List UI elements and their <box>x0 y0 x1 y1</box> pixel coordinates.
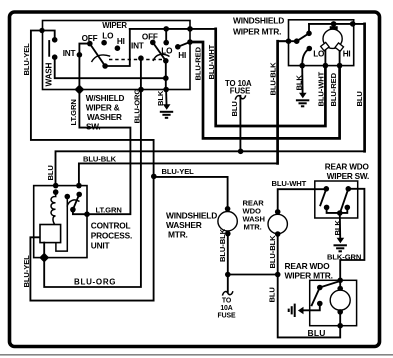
node gang2 rail from WASH <box>163 75 169 81</box>
node BLU-ORG at box bottom <box>138 87 144 93</box>
svg-text:BLK-GRN: BLK-GRN <box>327 253 361 262</box>
wire BLU-WHT thick from switch to wiper motor LO <box>216 29 326 126</box>
svg-text:INT: INT <box>63 49 76 58</box>
svg-text:FUSE: FUSE <box>218 312 236 319</box>
wire relay fixed contact to relay box bottom <box>56 197 67 252</box>
svg-text:BLU: BLU <box>230 101 239 117</box>
fuse hook symbol (upper) <box>235 95 246 99</box>
node BLK at box bottom <box>163 87 169 93</box>
svg-text:HI: HI <box>178 51 186 60</box>
svg-text:HI: HI <box>117 37 125 46</box>
node INT1 contact <box>77 52 83 58</box>
svg-text:BLU: BLU <box>308 328 326 338</box>
switch blade to upper contact <box>297 33 309 41</box>
node rail tap to LO2 <box>163 26 169 32</box>
wire lower contacts common <box>327 207 348 213</box>
motor circle (rear washer) <box>268 214 287 233</box>
svg-text:BLU-RED: BLU-RED <box>329 72 338 106</box>
wire BLU-YEL main run (switch feed, down left side, across, down riser, bottom run to relay) <box>30 31 153 301</box>
wire WASH bottom to gang2 pivot rail <box>55 57 166 78</box>
svg-text:BLU-YEL: BLU-YEL <box>162 167 195 176</box>
svg-text:LO: LO <box>313 50 325 59</box>
node motor park contact lower <box>307 46 313 52</box>
svg-text:BLU-BLK: BLU-BLK <box>268 235 277 269</box>
svg-text:BLK: BLK <box>295 75 304 91</box>
node relay fixed contact <box>65 194 71 200</box>
motor switch common wire <box>278 40 297 42</box>
node rear motor at box bottom <box>337 323 343 329</box>
windshield wiper motor box <box>289 20 354 66</box>
svg-text:FUSE: FUSE <box>230 86 250 95</box>
control process unit box <box>34 186 87 258</box>
blade rear motor park switch <box>312 288 320 306</box>
wire to fuse hook (lower) <box>227 275 229 293</box>
node rear switch lower-right contact <box>345 205 351 211</box>
node motor top terminal <box>331 21 337 27</box>
svg-text:LO: LO <box>102 31 114 40</box>
wire box top to circle top <box>339 280 341 290</box>
node rear motor park lower contact <box>317 301 323 307</box>
node motor switch common <box>294 38 300 44</box>
motor brush lug HI <box>335 43 343 51</box>
svg-text:WIPER: WIPER <box>102 21 127 30</box>
svg-text:LT.GRN: LT.GRN <box>69 99 78 125</box>
wire BLU-BLK thick vertical from motor switch <box>276 41 279 163</box>
wire BLU from fuse down to BLU line <box>239 96 241 152</box>
node LO2 upper contact <box>163 40 169 46</box>
svg-text:CONTROL: CONTROL <box>91 221 131 231</box>
wire rear motor park feed diagonal <box>320 281 340 288</box>
node BLU-YEL at switch box left edge <box>39 28 44 33</box>
svg-text:WIPER &: WIPER & <box>86 104 120 113</box>
wire relay bottom to BLU-ORG diamond <box>43 243 45 258</box>
arc gang1 wiper travel <box>92 55 111 62</box>
svg-text:MTR.: MTR. <box>168 229 188 239</box>
node BLU-RED tap at box right edge <box>187 39 193 45</box>
svg-text:HI: HI <box>343 50 351 59</box>
svg-text:BLK: BLK <box>333 220 342 236</box>
rear wiper switch box <box>315 181 358 218</box>
blade rear switch left (open) <box>320 189 326 206</box>
motor brush lug LO <box>321 42 329 50</box>
motor circle (windshield washer) <box>218 212 237 231</box>
blade relay switch <box>73 194 79 209</box>
blade rear switch right (closed) <box>340 189 348 213</box>
node LO1 contact <box>101 40 107 46</box>
motor circle (windshield wiper) <box>323 29 342 48</box>
ground symbol (rear wiper motor, pointing left) <box>289 304 304 317</box>
svg-text:WIPER MTR.: WIPER MTR. <box>233 26 281 36</box>
svg-text:BLU: BLU <box>268 287 277 303</box>
node BLU at control box top <box>53 183 59 189</box>
wire relay pivot to LT.GRN <box>73 210 87 215</box>
switch blade WASH (open) <box>48 41 50 56</box>
motor circle (rear wiper) <box>330 290 350 310</box>
wire BLU net: motor feed line across to control unit <box>363 24 366 151</box>
node fuse bus left <box>225 272 231 278</box>
node rear motor at box top <box>337 278 343 284</box>
svg-text:REAR WDO: REAR WDO <box>325 162 370 171</box>
wire BLU riser to rear wiper motor <box>278 275 341 338</box>
relay box <box>40 225 61 243</box>
node BLU-BLK at control box top <box>76 183 82 189</box>
node relay switch top contact <box>76 192 82 198</box>
node WASH bottom contact <box>52 54 58 60</box>
wire BLU-YEL branch to windshield washer motor <box>154 177 228 208</box>
svg-text:MTR.: MTR. <box>244 222 262 231</box>
relay coil <box>51 192 56 224</box>
svg-text:BLU-WHT: BLU-WHT <box>272 179 307 188</box>
svg-text:LO: LO <box>161 46 173 55</box>
wire motor top feed line <box>309 23 365 25</box>
svg-text:BLU: BLU <box>46 165 55 181</box>
ground symbol (rear switch) <box>334 238 347 252</box>
node motor park contact upper <box>306 31 312 37</box>
svg-text:BLU-BLK: BLU-BLK <box>83 155 117 164</box>
node rail at box right edge <box>187 26 193 32</box>
node BLU-ORG at control box bottom (diamond) <box>39 253 49 263</box>
svg-text:W/SHIELD: W/SHIELD <box>86 94 125 103</box>
wire fuse bus <box>228 274 278 276</box>
node LT.GRN at control box edge <box>84 211 90 217</box>
svg-text:BLK: BLK <box>156 90 165 106</box>
node washer motor top <box>225 206 231 212</box>
svg-text:UNIT: UNIT <box>91 241 110 251</box>
wire OFF1 to INT1 to box bottom, LT.GRN run to control unit <box>79 44 130 215</box>
wire LO lug down <box>324 51 326 66</box>
switch blade gang2 <box>153 42 166 60</box>
node rear motor park upper contact <box>317 285 323 291</box>
node OFF2 contact <box>150 40 156 46</box>
svg-text:BLU-BLK: BLU-BLK <box>268 62 277 96</box>
wire rear wash motor bottom to fuse bus <box>277 234 279 275</box>
node rear wash motor top <box>275 209 281 215</box>
svg-text:BLU-BLK: BLU-BLK <box>218 228 227 262</box>
wire BLU-ORG from INT2 down and across to control unit <box>44 58 141 287</box>
node pivot gang1 <box>102 63 108 69</box>
node HI2 contact <box>175 44 181 50</box>
wire BLK-GRN rear switch to rear wiper motor <box>340 189 364 280</box>
svg-text:OFF: OFF <box>82 34 98 43</box>
wire HI lug down <box>339 51 341 66</box>
arc gang2 wiper travel <box>153 54 170 61</box>
svg-text:BLU-ORG: BLU-ORG <box>132 89 141 124</box>
svg-text:WINDSHIELD: WINDSHIELD <box>233 15 284 25</box>
wire BLU-WHT rear wash motor to rear switch <box>278 189 327 212</box>
wire BLU-BLK from wiper motor switch to control unit <box>278 40 289 42</box>
wire gang2 pivot down to ground leg <box>165 61 167 90</box>
node rear wash motor bottom <box>275 231 281 237</box>
wire motor BLK to ground <box>301 66 303 93</box>
wire BLU-RED thick from switch to wiper motor HI <box>190 42 340 138</box>
svg-text:WASHER: WASHER <box>87 113 122 122</box>
motor armature cap <box>330 26 338 30</box>
svg-text:WASH: WASH <box>45 62 54 86</box>
node OFF1 contact <box>87 41 93 47</box>
bottom page rule line <box>0 354 393 356</box>
wire BLU feed line across to control unit <box>56 151 365 185</box>
svg-text:BLU-YEL: BLU-YEL <box>22 255 31 288</box>
node at motor box right edge <box>350 21 356 27</box>
svg-text:LT.GRN: LT.GRN <box>96 205 122 214</box>
wire BLK to ground (gang2) <box>165 90 167 105</box>
wiper switch box <box>43 21 191 90</box>
svg-text:BLU-WHT: BLU-WHT <box>207 44 216 79</box>
node motor switch at box left edge <box>286 38 292 44</box>
ground symbol (wiper switch) <box>160 104 173 118</box>
node motor BLK at box bottom <box>299 63 305 69</box>
wire BLU-BLK run to control unit <box>79 163 278 185</box>
node INT2 contact <box>138 55 144 61</box>
node coil top <box>53 189 59 195</box>
svg-text:BLU: BLU <box>355 91 364 107</box>
svg-text:OFF: OFF <box>142 33 158 42</box>
node relay pivot <box>70 207 76 213</box>
svg-text:BLU-ORG: BLU-ORG <box>74 278 116 287</box>
svg-text:TO: TO <box>222 298 232 305</box>
svg-text:10A: 10A <box>220 305 232 312</box>
node WASH top contact <box>52 37 58 43</box>
arc relay switch travel <box>67 200 80 207</box>
mechanical link dashed line <box>109 59 166 61</box>
wire gang1 pivot up to rail <box>105 29 130 66</box>
svg-text:BLU-WHT: BLU-WHT <box>316 71 325 106</box>
svg-text:PROCESS.: PROCESS. <box>91 231 132 241</box>
svg-text:WIPER SW.: WIPER SW. <box>327 172 369 181</box>
switch blade gang1 OFF to pivot <box>90 44 105 66</box>
svg-text:BLU-RED: BLU-RED <box>194 46 203 80</box>
wire park lower contact to ground <box>303 304 320 311</box>
node BLU-YEL branch <box>151 174 157 180</box>
svg-text:WIPER MTR.: WIPER MTR. <box>285 270 333 280</box>
switch blade HI2 to BLU-RED node <box>178 42 190 47</box>
svg-text:INT: INT <box>131 42 144 51</box>
node HI1 contact <box>115 45 121 51</box>
node pivot gang2 <box>163 58 169 64</box>
node washer motor bottom <box>225 231 231 237</box>
node BLU fuse tap <box>238 149 244 155</box>
node rear switch left contact <box>324 186 330 192</box>
node fuse bus right <box>275 272 281 278</box>
node LT.GRN at switch box bottom (diamond) <box>74 85 84 95</box>
node rear switch lower-left contact <box>324 205 330 211</box>
wire washer motor bottom to fuse bus <box>227 234 229 275</box>
wire park contact to top line <box>308 24 310 33</box>
wire rail top of gang2 <box>130 28 216 30</box>
fuse hook symbol (lower) <box>222 291 233 295</box>
node motor BLU-WHT at box bottom <box>323 63 329 69</box>
wire WASH feed into top contact <box>42 31 55 40</box>
svg-text:SW.: SW. <box>86 122 100 131</box>
node rear motor circle bottom <box>337 309 343 315</box>
wire LO2 contact feed <box>165 29 167 43</box>
node rear switch right contact <box>346 186 352 192</box>
node motor BLU-RED at box bottom <box>337 63 343 69</box>
wire circle bottom to box bottom <box>339 312 341 326</box>
svg-text:BLU-YEL: BLU-YEL <box>22 43 31 76</box>
rear wiper motor box <box>310 280 357 325</box>
node rear switch ground junction <box>337 210 343 216</box>
ground symbol (wiper motor) <box>296 93 309 107</box>
node rear motor circle top <box>337 286 343 292</box>
wire rear switch BLK to ground <box>339 213 341 238</box>
wire lower contact curve to BLK <box>302 49 309 66</box>
